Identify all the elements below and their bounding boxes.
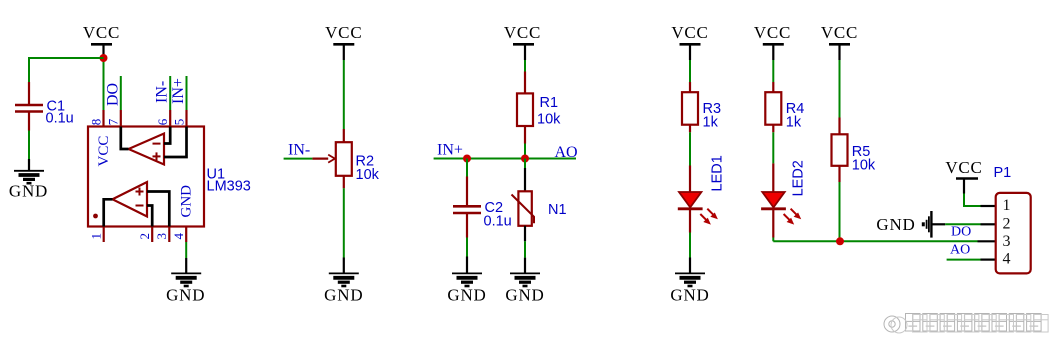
svg-text:VCC: VCC — [96, 136, 112, 167]
junction dot (R1/N1) — [521, 155, 529, 163]
U1 pin 3 — [168, 227, 170, 243]
svg-text:VCC: VCC — [504, 23, 541, 42]
svg-text:VCC: VCC — [325, 23, 362, 42]
svg-text:0.1u: 0.1u — [46, 111, 74, 127]
wire LED2 to DO rail — [772, 238, 774, 242]
wire VCC to R3 — [689, 60, 691, 82]
svg-text:AO: AO — [555, 144, 578, 161]
svg-text:GND: GND — [447, 286, 486, 305]
U1 pin 1 — [103, 227, 105, 243]
svg-text:IN-: IN- — [153, 81, 170, 103]
wire comparator B inverting input to pin2 — [147, 206, 152, 227]
svg-text:GND: GND — [9, 182, 48, 201]
capacitor C1 — [15, 82, 74, 131]
wire rail to N1 — [524, 159, 526, 169]
wire N1 to GND — [524, 241, 526, 257]
svg-text:IN-: IN- — [288, 142, 310, 159]
svg-text:1: 1 — [1003, 197, 1011, 214]
wire AO stub to P1 pin4 — [947, 259, 981, 261]
svg-text:2: 2 — [137, 233, 152, 240]
watermark — [884, 314, 1041, 333]
wire comparator B non-inverting input to pin3 — [147, 192, 169, 227]
power GND (P1) — [876, 211, 945, 238]
svg-text:5: 5 — [171, 119, 186, 126]
wire C2 to GND — [466, 238, 468, 257]
ground GND (U1) — [166, 258, 205, 305]
wire R5 to DO rail — [839, 182, 841, 241]
connector P1 body — [996, 193, 1031, 274]
svg-text:7: 7 — [106, 118, 121, 125]
svg-text:R1: R1 — [540, 95, 559, 111]
svg-text:GND: GND — [505, 286, 544, 305]
svg-text:2: 2 — [1003, 216, 1011, 233]
wire C1 to GND — [28, 131, 30, 160]
wire VCC to C1 — [29, 58, 104, 82]
svg-text:P1: P1 — [994, 165, 1012, 181]
comparator A triangle — [129, 134, 165, 165]
wire R1 to rail — [524, 144, 526, 159]
wire VCC to U1 pin 8 — [103, 56, 105, 110]
resistor R4 — [765, 82, 804, 132]
svg-text:IN+: IN+ — [437, 142, 463, 159]
P1 pin 4 lead — [981, 259, 996, 261]
wire R4 to LED2 — [772, 132, 774, 163]
P1 pin 3 lead — [978, 240, 996, 242]
resistor R5 — [832, 118, 876, 183]
wire GND to P1 pin2 — [945, 223, 980, 225]
power VCC (R3 column) — [671, 23, 708, 60]
wire DO net rail — [773, 240, 977, 242]
LED2 — [761, 160, 806, 237]
comparator B minus mark — [136, 205, 144, 207]
wire U1 pin6 to comparator A inverting input — [164, 127, 170, 144]
svg-text:LM393: LM393 — [207, 179, 251, 195]
P1 pin 1 lead — [981, 205, 996, 207]
svg-text:GND: GND — [166, 286, 205, 305]
svg-text:6: 6 — [155, 118, 170, 125]
power VCC (R1 column) — [504, 23, 541, 60]
ground GND (C2) — [447, 257, 486, 305]
svg-text:1k: 1k — [786, 115, 802, 131]
power VCC (R2 column) — [325, 23, 362, 60]
U1 pin 5 (IN+) stub — [186, 76, 188, 110]
svg-text:AO: AO — [950, 243, 970, 258]
LED1 — [678, 155, 726, 232]
wire LED1 to GND — [689, 233, 691, 258]
wire IN+/AO rail — [434, 158, 576, 160]
ground GND (R2) — [324, 258, 363, 305]
svg-text:0.1u: 0.1u — [484, 214, 512, 230]
svg-text:VCC: VCC — [821, 23, 858, 42]
svg-text:3: 3 — [1003, 233, 1011, 250]
svg-text:VCC: VCC — [83, 23, 120, 42]
svg-text:10k: 10k — [852, 158, 876, 174]
thermistor N1 — [512, 168, 567, 241]
wire U1 pin5 to comparator A non-inverting input — [164, 127, 187, 158]
comparator A minus mark — [153, 143, 161, 145]
ground GND (LED1) — [670, 258, 709, 305]
ground GND (N1) — [505, 258, 544, 305]
U1 pin 4 — [185, 227, 187, 243]
svg-text:VCC: VCC — [945, 158, 982, 177]
wire VCC to R2 — [343, 60, 345, 129]
junction dot (C2) — [463, 155, 471, 163]
power VCC (P1) — [945, 158, 982, 194]
wire VCC to P1 pin1 — [964, 194, 981, 207]
potentiometer R2 — [312, 129, 379, 188]
svg-text:GND: GND — [670, 286, 709, 305]
resistor R1 — [517, 72, 561, 144]
wire IN- stub — [284, 158, 313, 160]
U1 pin 7 (DO) stub — [120, 76, 122, 110]
svg-text:4: 4 — [1003, 251, 1011, 268]
P1 pin 2 lead — [981, 223, 996, 225]
wire U1 pin4 to GND — [185, 242, 187, 258]
capacitor C2 — [453, 177, 512, 238]
comparator B plus mark — [136, 191, 144, 193]
svg-text:IN+: IN+ — [170, 78, 187, 104]
resistor R3 — [682, 82, 721, 132]
svg-text:GND: GND — [179, 185, 195, 218]
wire VCC to R4 — [772, 60, 774, 82]
wire rail to C2 — [466, 159, 468, 177]
svg-text:LED1: LED1 — [710, 155, 726, 191]
svg-text:GND: GND — [324, 286, 363, 305]
svg-text:1k: 1k — [703, 115, 719, 131]
comparator A plus mark — [153, 155, 161, 157]
U1 pin 2 — [151, 227, 153, 243]
wire U1 pin7 to comparator A output — [121, 127, 129, 150]
ground GND (C1) — [9, 159, 48, 201]
svg-text:VCC: VCC — [754, 23, 791, 42]
svg-text:DO: DO — [104, 83, 121, 106]
svg-text:VCC: VCC — [671, 23, 708, 42]
wire R2 to GND — [343, 188, 345, 257]
svg-text:DO: DO — [951, 225, 971, 240]
svg-text:GND: GND — [876, 215, 915, 234]
wire VCC to R1 — [524, 60, 526, 72]
U1 pin 1 marker dot — [93, 214, 98, 219]
power VCC (R5 column) — [821, 23, 858, 60]
svg-text:LED2: LED2 — [791, 160, 807, 196]
comparator B triangle — [113, 182, 148, 217]
power VCC (R4 column) — [754, 23, 791, 60]
wire R3 to LED1 — [689, 132, 691, 165]
svg-text:1: 1 — [89, 233, 104, 240]
svg-text:3: 3 — [154, 233, 169, 240]
op-amp U1 LM393 body — [88, 127, 204, 227]
wire VCC to R5 — [839, 60, 841, 118]
wire comparator B output to pin1 — [104, 199, 113, 226]
U1 pin 6 (IN-) stub — [169, 76, 171, 110]
junction dot (VCC/C1) — [100, 54, 108, 62]
svg-text:10k: 10k — [356, 167, 380, 183]
svg-text:8: 8 — [88, 119, 103, 126]
junction dot (R5/DO) — [836, 237, 844, 245]
power VCC (C1/U1 column) — [83, 23, 120, 56]
U1 pin 8 (VCC) — [102, 110, 104, 127]
svg-text:4: 4 — [171, 233, 186, 240]
svg-text:N1: N1 — [548, 202, 567, 218]
svg-text:10k: 10k — [537, 112, 561, 128]
